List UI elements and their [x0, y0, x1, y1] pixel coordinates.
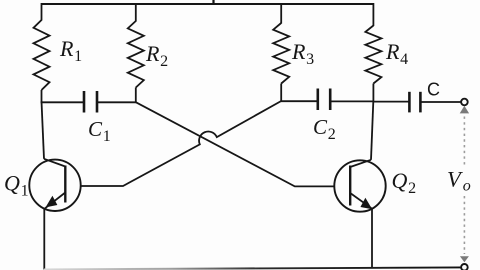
wire Q1 emitter to ground	[43, 208, 45, 270]
output terminal top	[461, 99, 468, 106]
wire Q2 emitter to ground	[371, 208, 373, 269]
wire Q1 collector	[42, 101, 45, 158]
wire output lead to C	[373, 101, 409, 103]
capacitor C1	[84, 91, 97, 113]
Vo arrow up	[460, 106, 469, 114]
wire Q2 collector	[371, 102, 373, 160]
transistor Q2	[334, 160, 385, 212]
svg-text:C: C	[427, 80, 440, 100]
wire R2 bottom stub	[135, 88, 137, 103]
wire cross-coupling R2 node to Q2 base	[136, 102, 335, 186]
wire C2 left lead	[280, 100, 317, 102]
wire bottom ground rail	[44, 267, 461, 269]
output terminal bottom	[461, 264, 468, 270]
wire R3 bottom stub	[280, 84, 282, 102]
capacitor C2	[318, 89, 330, 111]
wire Vcc stub	[212, 0, 214, 5]
wire C to output terminal	[421, 101, 461, 103]
transistor Q1	[29, 159, 80, 211]
wire C1 right lead	[98, 101, 137, 103]
wire R1 bottom stub	[41, 90, 43, 102]
resistor R2	[128, 21, 144, 88]
Vo dashed measure line lower	[463, 196, 465, 254]
wire C1 left lead	[41, 101, 84, 103]
wire R3 top stub	[280, 3, 282, 24]
wire R2 top stub	[135, 3, 137, 22]
wire cross-coupling R3 node to Q1 base with hop	[81, 101, 282, 186]
resistor R4	[365, 26, 381, 84]
resistor R3	[273, 23, 289, 84]
wire top supply rail	[42, 3, 374, 5]
capacitor C	[409, 92, 420, 113]
wire R4 top stub	[372, 3, 374, 26]
Vo dashed measure line upper	[463, 117, 465, 166]
Vo arrow down	[460, 256, 469, 262]
wire C2 right lead	[331, 100, 374, 102]
wire R1 top stub	[41, 3, 43, 21]
resistor R1	[34, 20, 50, 90]
wire R4 bottom stub	[372, 84, 374, 102]
